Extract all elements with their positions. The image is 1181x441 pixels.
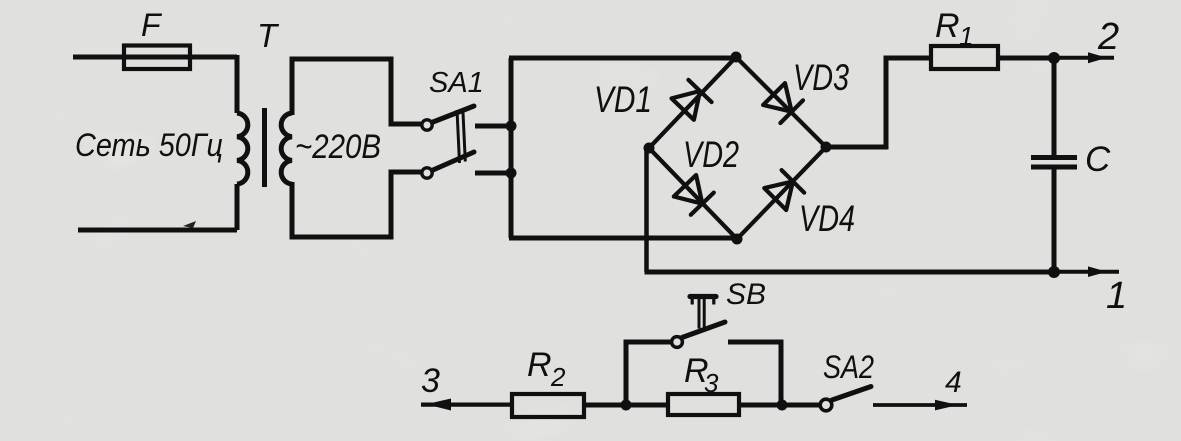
node: junction dot bottom input bbox=[506, 168, 517, 179]
svg-text:C: C bbox=[1085, 140, 1111, 179]
svg-text:VD3: VD3 bbox=[793, 57, 849, 98]
capacitor C bbox=[1031, 58, 1077, 272]
switch SA1 top contact bbox=[422, 120, 432, 130]
pushbutton SB contact bbox=[672, 337, 683, 348]
node: capacitor top junction bbox=[1048, 52, 1060, 64]
switch SA1 bottom contact bbox=[422, 168, 432, 178]
wire: SA1 top output bbox=[475, 124, 511, 129]
switch SA1 top arm bbox=[433, 106, 474, 122]
node: right junction dot bbox=[777, 400, 788, 411]
diode VD3 bbox=[763, 83, 803, 123]
node: capacitor bottom junction bbox=[1048, 266, 1060, 278]
arrow terminal 2 bbox=[1088, 52, 1107, 63]
diode VD1 bbox=[672, 80, 712, 120]
transformer T primary winding bbox=[237, 113, 248, 184]
wire: secondary bottom bbox=[292, 172, 421, 237]
wire: primary bottom lead bbox=[78, 228, 237, 233]
svg-text:VD1: VD1 bbox=[594, 79, 652, 120]
arrow terminal 4 bbox=[935, 400, 958, 411]
fuse F bbox=[124, 46, 190, 70]
arrow terminal 3 bbox=[426, 399, 451, 411]
switch SA1 bottom arm bbox=[433, 152, 474, 170]
wire: primary left vertical bbox=[235, 55, 240, 113]
svg-text:SB: SB bbox=[726, 278, 766, 311]
svg-text:2: 2 bbox=[550, 362, 566, 392]
svg-text:1: 1 bbox=[1106, 275, 1127, 317]
wire: bypass top right bbox=[728, 342, 781, 405]
svg-text:VD2: VD2 bbox=[683, 134, 739, 175]
wire: SA1 bottom output bbox=[475, 171, 511, 176]
node: bridge left bbox=[644, 143, 655, 154]
svg-text:1: 1 bbox=[959, 21, 973, 51]
pushbutton SB plunger bbox=[690, 297, 716, 329]
switch SA2 arm bbox=[832, 387, 871, 401]
wire: bottom rail to bridge bbox=[509, 236, 737, 241]
wire: R2 to R3 bbox=[584, 403, 668, 408]
wire: bridge left node down bbox=[644, 148, 649, 272]
svg-text:2: 2 bbox=[1097, 16, 1119, 58]
svg-text:VD4: VD4 bbox=[799, 198, 855, 239]
svg-text:4: 4 bbox=[945, 366, 962, 399]
svg-text:SA1: SA1 bbox=[429, 67, 484, 99]
svg-text:3: 3 bbox=[704, 368, 719, 398]
wire: bridge right node to R1 bbox=[826, 58, 931, 147]
wire: bottom rail to terminal 1 bbox=[645, 270, 1055, 275]
wire: rectifier loop left vertical bbox=[509, 58, 514, 238]
wire: bypass left riser bbox=[626, 342, 671, 405]
node: junction dot top input bbox=[506, 121, 517, 132]
resistor R1 bbox=[931, 46, 998, 69]
diode VD4 bbox=[764, 170, 804, 210]
transformer core bbox=[262, 108, 267, 187]
wire: bridge arm left-bottom bbox=[649, 148, 737, 239]
wire: bridge arm left-top bbox=[649, 57, 736, 148]
node: bridge top bbox=[731, 52, 742, 63]
wire: R1 to terminal 2 bbox=[998, 56, 1054, 61]
diode VD2 bbox=[674, 175, 714, 215]
node: left junction dot bbox=[621, 400, 632, 411]
wire: top rail to bridge bbox=[509, 56, 736, 61]
wire: primary bottom vertical bbox=[235, 184, 240, 230]
svg-text:SA2: SA2 bbox=[823, 349, 874, 385]
svg-text:~220В: ~220В bbox=[295, 128, 381, 166]
wire: terminal 3 to R2 bbox=[421, 403, 512, 407]
svg-text:Сеть 50Гц: Сеть 50Гц bbox=[75, 127, 223, 163]
wire: secondary top bbox=[292, 59, 421, 124]
wire: bridge arm top-right bbox=[736, 57, 826, 147]
pushbutton SB arm bbox=[682, 322, 725, 338]
transformer T secondary winding bbox=[281, 113, 292, 184]
svg-text:3: 3 bbox=[421, 362, 440, 400]
wire: SA2 to terminal 4 bbox=[873, 403, 967, 407]
node: bridge right bbox=[821, 142, 832, 153]
svg-text:T: T bbox=[257, 17, 280, 54]
arrow terminal 1 bbox=[1088, 266, 1107, 277]
switch SA1 linkage bbox=[457, 109, 465, 164]
wire: bridge arm bottom-right bbox=[737, 147, 826, 239]
resistor R3 bbox=[668, 394, 739, 415]
svg-text:F: F bbox=[141, 7, 163, 43]
wire: primary top lead bbox=[73, 55, 237, 60]
resistor R2 bbox=[512, 394, 584, 417]
svg-text:R: R bbox=[527, 346, 552, 384]
switch SA2 contact bbox=[820, 399, 832, 411]
wire: R3 to SA2 bbox=[739, 403, 821, 408]
svg-text:R: R bbox=[935, 7, 960, 45]
stray ink speck bbox=[183, 221, 196, 228]
node: bridge bottom bbox=[732, 234, 743, 245]
